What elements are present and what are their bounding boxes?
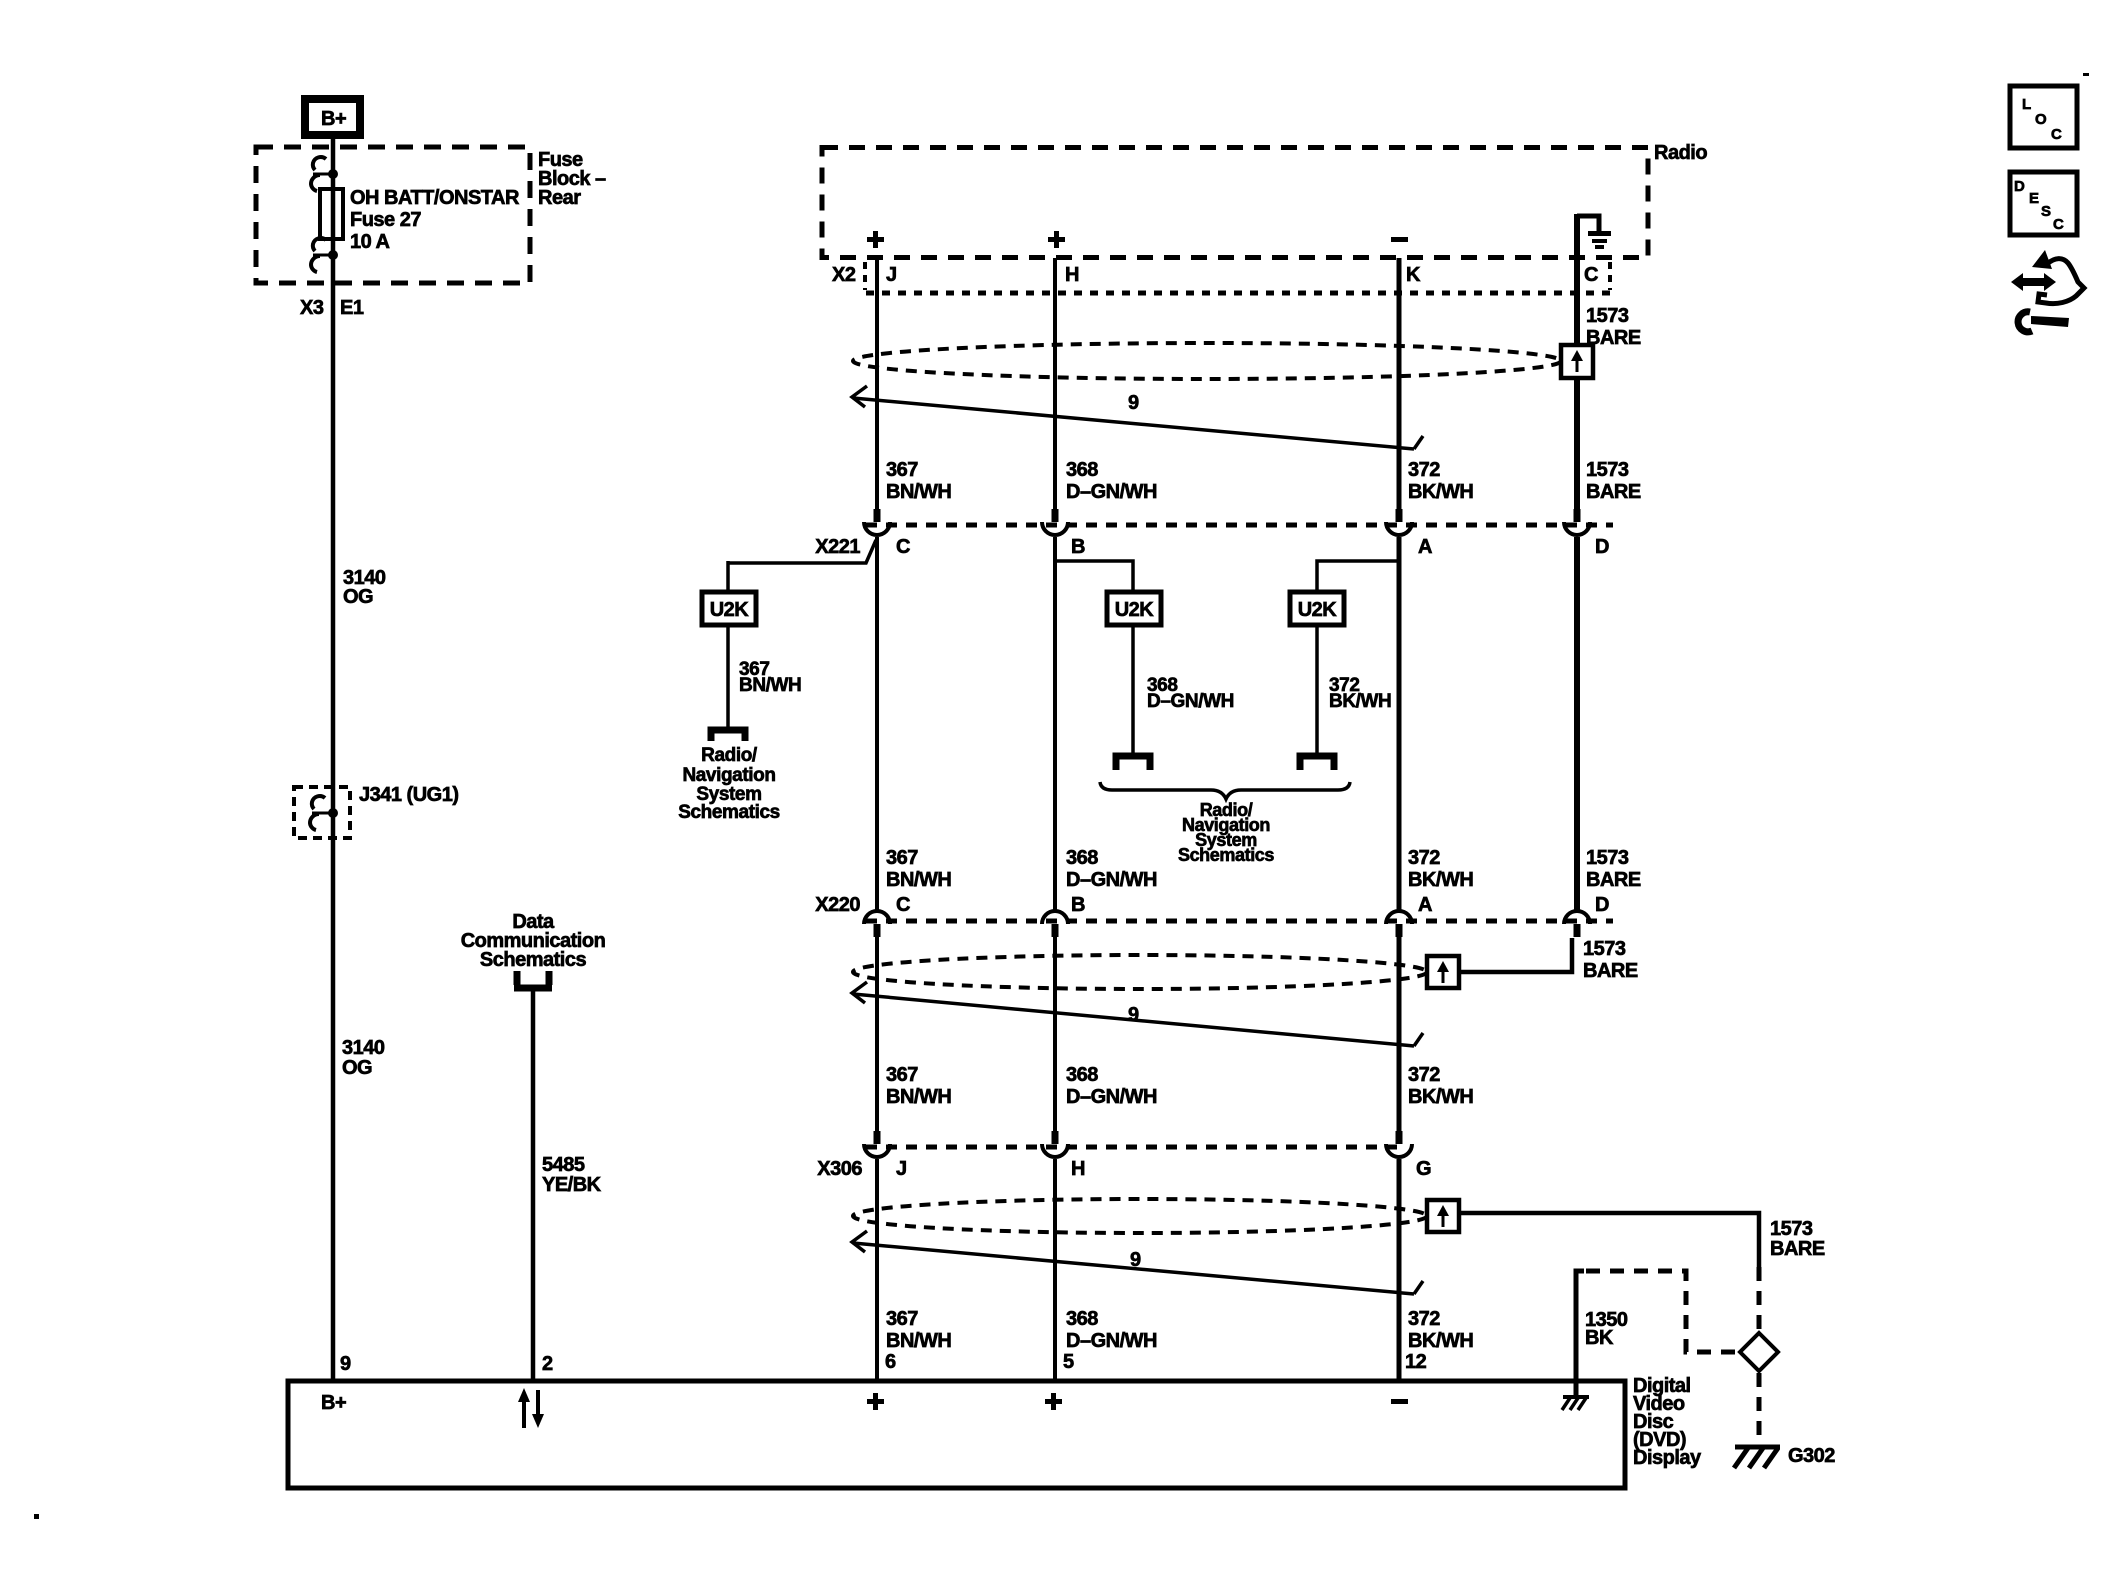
wire 1350 BK dashed to splice: [1586, 1271, 1736, 1352]
wire 368 D-GN/WH segment radio to X221: [1053, 258, 1057, 509]
option box U2K (367): [702, 592, 756, 625]
label 3140 OG (upper): [343, 567, 386, 608]
label 368 D-GN/WH row3: [1066, 1064, 1157, 1108]
svg-text:BK/WH: BK/WH: [1408, 869, 1473, 891]
chassis ground (DVD display): [1562, 1397, 1589, 1410]
svg-text:1573: 1573: [1770, 1218, 1813, 1240]
DVD internal + (pin 6): [867, 1393, 884, 1410]
svg-text:6: 6: [885, 1351, 896, 1373]
wire branch to U2K (367): [728, 540, 876, 563]
DVD internal - (pin 12): [1391, 1399, 1408, 1404]
svg-text:B+: B+: [321, 1392, 346, 1414]
page mark top right: [2083, 73, 2089, 76]
svg-text:1573: 1573: [1586, 459, 1629, 481]
svg-text:X220: X220: [815, 894, 860, 916]
label 372 BK/WH row3: [1408, 1064, 1473, 1108]
svg-text:O: O: [2035, 111, 2047, 128]
svg-text:D–GN/WH: D–GN/WH: [1066, 481, 1157, 503]
shield drain square 2: [1427, 956, 1459, 988]
wire 368 D-GN/WH segment X306 to DVD: [1053, 1159, 1057, 1381]
label 1573 BARE row1: [1586, 459, 1641, 503]
label 372 BK/WH row2: [1408, 847, 1473, 891]
fuse block - rear dashed box: [256, 147, 530, 283]
svg-text:Schematics: Schematics: [480, 949, 587, 971]
svg-text:367: 367: [886, 1308, 918, 1330]
fuse upper terminal: [311, 157, 338, 191]
connector X306 pin G terminal: [1386, 1131, 1412, 1157]
label 368 D-GN/WH row1: [1066, 459, 1157, 503]
label 372 BK/WH row4: [1408, 1308, 1473, 1352]
DESC box: [2010, 172, 2077, 235]
svg-text:372: 372: [1408, 847, 1440, 869]
svg-text:BN/WH: BN/WH: [886, 1330, 951, 1352]
svg-text:D–GN/WH: D–GN/WH: [1066, 869, 1157, 891]
svg-text:9: 9: [1128, 1004, 1139, 1026]
fuse lower terminal: [311, 238, 338, 272]
wire 1573 BARE X306 drain to splice: [1459, 1213, 1759, 1267]
label 5485 YE/BK: [542, 1154, 602, 1196]
connector X221 pin B terminal: [1042, 509, 1068, 535]
wire 367 BN/WH segment X306 to DVD: [875, 1159, 879, 1381]
svg-text:E1: E1: [340, 297, 364, 319]
radio pin + (H): [1048, 231, 1065, 248]
svg-text:A: A: [1418, 894, 1432, 916]
off-page connector (data communication): [514, 971, 552, 988]
svg-text:368: 368: [1066, 459, 1098, 481]
splice diamond: [1740, 1333, 1778, 1371]
svg-text:367: 367: [886, 459, 918, 481]
wire 1573 BARE X220 drain corner: [1459, 938, 1572, 972]
wire 367 BN/WH segment radio to X221: [875, 258, 879, 509]
svg-text:3140: 3140: [342, 1037, 385, 1059]
label Data Communication Schematics: [461, 911, 606, 971]
wire 368 D-GN/WH segment X221 to X220: [1053, 537, 1057, 910]
page mark bottom left: [34, 1514, 39, 1519]
svg-text:X306: X306: [817, 1158, 862, 1180]
svg-text:H: H: [1065, 264, 1079, 286]
connector X221 pin C terminal: [864, 509, 890, 535]
svg-text:Radio: Radio: [1654, 142, 1707, 164]
svg-text:X3: X3: [300, 297, 324, 319]
connector X2 row: [865, 262, 1613, 293]
svg-text:C: C: [2051, 126, 2062, 143]
fuse F27 10A: [320, 189, 343, 239]
label 1573 BARE (right): [1770, 1218, 1825, 1260]
svg-text:372: 372: [1408, 1064, 1440, 1086]
svg-text:BN/WH: BN/WH: [886, 869, 951, 891]
svg-text:1573: 1573: [1586, 847, 1629, 869]
ground G302: [1734, 1447, 1780, 1468]
svg-text:J: J: [896, 1158, 907, 1180]
svg-text:367: 367: [886, 1064, 918, 1086]
connector X221 pin D terminal: [1564, 509, 1590, 535]
wire U2K to off-page (368): [1131, 625, 1135, 757]
label 1350 BK: [1585, 1309, 1628, 1349]
svg-text:B: B: [1071, 894, 1085, 916]
wire 1573 BARE segment radio to X221: [1574, 214, 1580, 509]
svg-text:J: J: [886, 264, 897, 286]
svg-text:X2: X2: [832, 264, 856, 286]
svg-text:BARE: BARE: [1586, 869, 1641, 891]
svg-text:9: 9: [1130, 1249, 1141, 1271]
svg-text:368: 368: [1066, 1064, 1098, 1086]
wrench navigation icon: [2011, 250, 2084, 332]
svg-text:D–GN/WH: D–GN/WH: [1066, 1086, 1157, 1108]
svg-text:E: E: [2029, 190, 2039, 207]
label 1573 BARE row2: [1586, 847, 1641, 891]
label 372 BK/WH row1: [1408, 459, 1473, 503]
svg-text:BARE: BARE: [1586, 327, 1641, 349]
svg-text:1573: 1573: [1586, 305, 1629, 327]
svg-text:Radio/: Radio/: [701, 745, 758, 766]
label 3140 OG (lower): [342, 1037, 385, 1079]
svg-text:G302: G302: [1788, 1445, 1835, 1467]
svg-text:Fuse 27: Fuse 27: [350, 209, 421, 231]
shield drain square 3: [1427, 1200, 1459, 1232]
radio pin - (K): [1391, 237, 1408, 242]
svg-text:5485: 5485: [542, 1154, 585, 1176]
label 1573 BARE row3: [1583, 938, 1638, 982]
svg-text:372: 372: [1408, 1308, 1440, 1330]
svg-text:Navigation: Navigation: [682, 765, 775, 786]
svg-text:1573: 1573: [1583, 938, 1626, 960]
svg-text:B+: B+: [321, 108, 346, 130]
svg-text:J341 (UG1): J341 (UG1): [359, 784, 459, 806]
shield twisted-pair ellipse 3: [853, 1199, 1427, 1233]
svg-text:BN/WH: BN/WH: [886, 481, 951, 503]
svg-text:C: C: [1584, 264, 1598, 286]
svg-text:U2K: U2K: [710, 599, 750, 621]
svg-text:BN/WH: BN/WH: [886, 1086, 951, 1108]
svg-text:K: K: [1406, 264, 1421, 286]
label 367 BN/WH row4: [886, 1308, 951, 1352]
splice J341 (UG1) dashed box: [294, 787, 350, 838]
svg-text:9: 9: [1128, 392, 1139, 414]
svg-text:B: B: [1071, 536, 1085, 558]
svg-text:OH BATT/ONSTAR: OH BATT/ONSTAR: [350, 187, 520, 209]
off-page connector (367): [711, 730, 745, 741]
wire 1350 BK: [1576, 1271, 1584, 1397]
svg-text:OG: OG: [343, 586, 373, 608]
connector X220 pin A terminal: [1386, 911, 1412, 937]
svg-text:BN/WH: BN/WH: [739, 675, 801, 696]
label 367 BN/WH row3: [886, 1064, 951, 1108]
svg-text:H: H: [1071, 1158, 1085, 1180]
label 368 D-GN/WH (U2K branch): [1147, 675, 1234, 712]
wire 368 D-GN/WH segment X220 to X306: [1053, 937, 1057, 1131]
power symbol B+: [305, 99, 360, 135]
svg-text:12: 12: [1405, 1351, 1427, 1373]
svg-text:9: 9: [340, 1353, 351, 1375]
svg-text:L: L: [2022, 96, 2031, 113]
DVD internal + (pin 5): [1045, 1393, 1062, 1410]
label 1573 BARE below X2: [1586, 305, 1641, 349]
svg-text:5: 5: [1063, 1351, 1074, 1373]
svg-text:U2K: U2K: [1115, 599, 1155, 621]
wire 1573 BARE segment X221 to X220: [1574, 537, 1580, 910]
off-page connector (368): [1116, 756, 1150, 770]
connector X306 pin H terminal: [1042, 1131, 1068, 1157]
connector X306 row: [866, 1145, 1400, 1150]
wire branch to U2K (368): [1055, 561, 1133, 592]
DVD display box: [288, 1381, 1625, 1488]
svg-text:BK/WH: BK/WH: [1408, 481, 1473, 503]
wire 372 BK/WH segment radio to X221: [1397, 258, 1402, 509]
label Radio/Navigation System Schematics (center): [1178, 800, 1274, 865]
svg-text:BARE: BARE: [1770, 1238, 1825, 1260]
svg-text:X221: X221: [815, 536, 860, 558]
wire 372 BK/WH segment X306 to DVD: [1397, 1159, 1402, 1381]
connector X220 pin B terminal: [1042, 911, 1068, 937]
svg-text:BK/WH: BK/WH: [1329, 691, 1391, 712]
wire 3140 OG (B+ feed): [331, 139, 336, 1381]
connector X221 row: [866, 523, 1613, 528]
LOC box: [2010, 86, 2077, 148]
wire 5485 YE/BK: [531, 989, 536, 1381]
twist count 9 line 2: [852, 982, 1423, 1046]
twist count 9 line 3: [852, 1231, 1423, 1294]
wire U2K to off-page (372): [1315, 625, 1319, 757]
svg-text:368: 368: [1066, 1308, 1098, 1330]
svg-text:Schematics: Schematics: [1178, 845, 1274, 865]
radio pin + (J): [867, 231, 884, 248]
radio internal ground: [1577, 216, 1611, 249]
svg-text:BK/WH: BK/WH: [1408, 1086, 1473, 1108]
svg-text:BARE: BARE: [1586, 481, 1641, 503]
label Digital Video Disc (DVD) Display: [1633, 1375, 1702, 1469]
svg-text:Display: Display: [1633, 1447, 1702, 1469]
connector X306 pin J terminal: [864, 1131, 890, 1157]
wire 367 BN/WH segment X220 to X306: [875, 937, 879, 1131]
svg-text:2: 2: [542, 1353, 553, 1375]
svg-text:Schematics: Schematics: [678, 802, 780, 823]
label 372 BK/WH (U2K branch): [1329, 675, 1391, 712]
wire U2K to off-page (367): [726, 625, 730, 730]
twist count 9 line 1: [852, 386, 1423, 449]
connector X220 pin C terminal: [864, 911, 890, 937]
svg-text:372: 372: [1408, 459, 1440, 481]
wire dashed splice to G302: [1757, 1373, 1762, 1446]
svg-text:C: C: [896, 894, 910, 916]
wire 372 BK/WH segment X220 to X306: [1397, 937, 1402, 1131]
shield twisted-pair ellipse 2: [853, 955, 1427, 989]
radio dashed box: [822, 148, 1648, 258]
svg-text:OG: OG: [342, 1057, 372, 1079]
svg-text:A: A: [1418, 536, 1432, 558]
brace (radio/navigation): [1100, 782, 1350, 799]
svg-text:G: G: [1416, 1158, 1431, 1180]
svg-text:S: S: [2041, 203, 2051, 220]
label Fuse Block - Rear: [538, 149, 606, 209]
wire 367 BN/WH segment X221 to X220: [875, 537, 879, 910]
wire 372 BK/WH segment X221 to X220: [1397, 537, 1402, 910]
label OH BATT/ONSTAR Fuse 27 10 A: [350, 187, 520, 253]
connector X221 pin A terminal: [1386, 509, 1412, 535]
svg-text:D–GN/WH: D–GN/WH: [1147, 691, 1234, 712]
svg-text:D: D: [1595, 536, 1609, 558]
svg-text:U2K: U2K: [1298, 599, 1338, 621]
svg-text:C: C: [896, 536, 910, 558]
label 367 BN/WH row1: [886, 459, 951, 503]
svg-text:10 A: 10 A: [350, 231, 390, 253]
wire branch to U2K (372): [1317, 561, 1399, 592]
connector X220 pin D terminal: [1564, 911, 1590, 937]
wire 1573 BARE dashed to splice: [1757, 1267, 1762, 1331]
svg-text:Rear: Rear: [538, 187, 581, 209]
option box U2K (372): [1290, 592, 1344, 625]
svg-text:C: C: [2053, 216, 2064, 233]
svg-text:YE/BK: YE/BK: [542, 1174, 602, 1196]
label 367 BN/WH row2: [886, 847, 951, 891]
svg-text:D: D: [1595, 894, 1609, 916]
option box U2K (368): [1107, 592, 1161, 625]
label 368 D-GN/WH row2: [1066, 847, 1157, 891]
shield twisted-pair ellipse 1: [853, 343, 1561, 379]
off-page connector (372): [1300, 756, 1334, 770]
shield drain square 1: [1561, 345, 1593, 378]
DVD internal data arrows: [518, 1388, 544, 1428]
svg-text:D–GN/WH: D–GN/WH: [1066, 1330, 1157, 1352]
svg-text:367: 367: [886, 847, 918, 869]
connector X220 row: [866, 919, 1613, 924]
svg-text:BK/WH: BK/WH: [1408, 1330, 1473, 1352]
label 367 BN/WH (U2K branch): [739, 659, 801, 696]
svg-text:D: D: [2014, 178, 2025, 195]
svg-text:BK: BK: [1585, 1327, 1614, 1349]
svg-text:BARE: BARE: [1583, 960, 1638, 982]
label 368 D-GN/WH row4: [1066, 1308, 1157, 1352]
splice J341 terminal: [310, 796, 338, 830]
label Radio/Navigation System Schematics (left): [678, 745, 780, 823]
svg-text:368: 368: [1066, 847, 1098, 869]
